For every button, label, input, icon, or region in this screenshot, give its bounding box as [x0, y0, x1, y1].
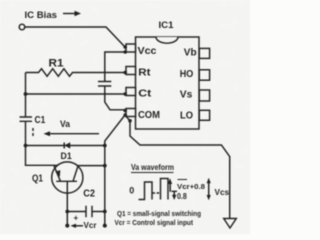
- node discharge junction: [103, 144, 107, 148]
- IC1 label: [159, 20, 174, 30]
- label Vcr plus 0.8: [177, 182, 205, 191]
- note Vcr legend: [115, 218, 194, 227]
- pin HO stub: [199, 70, 209, 80]
- label IC Bias: [25, 10, 58, 20]
- capacitor bypass: [98, 82, 111, 87]
- overbar Vcr: [178, 179, 188, 181]
- wire COM to ground: [125, 115, 230, 218]
- pin Vb stub: [199, 48, 209, 58]
- pin Rt stub: [123, 67, 135, 75]
- pin label LO: [180, 110, 193, 121]
- wire left rail lower: [25, 121, 27, 145]
- arrow Vcr: [71, 224, 84, 228]
- pin LO stub: [199, 110, 209, 120]
- label C1: [35, 115, 46, 126]
- pin Ct stub: [123, 88, 135, 96]
- transistor Q1: [52, 162, 83, 193]
- label Va waveform: [131, 163, 174, 172]
- wire emitter to right rail: [78, 165, 105, 167]
- arrow IC Bias: [63, 11, 81, 16]
- label zero: [129, 186, 134, 196]
- waveform trace: [139, 179, 169, 200]
- pin Vs stub: [199, 90, 209, 101]
- pin label Rt: [138, 68, 151, 79]
- wire collector to left rail: [26, 146, 58, 166]
- pin label Vs: [180, 89, 193, 100]
- label 0.8: [177, 192, 187, 201]
- arrow waveform high: [168, 178, 172, 192]
- wire COM to discharge node: [105, 115, 125, 146]
- arrow Va: [44, 131, 100, 136]
- wire Q1 base down: [66, 181, 68, 225]
- pin Vcc stub: [123, 44, 135, 54]
- pin label Ct: [138, 88, 152, 99]
- node emitter rail junction: [103, 164, 107, 168]
- scan noise overlay: [0, 0, 1, 1]
- label Va: [60, 119, 70, 129]
- node Ct junction: [24, 92, 28, 96]
- terminal rail bottom: [103, 224, 107, 228]
- label R1: [49, 58, 64, 70]
- pin label Vcc: [138, 46, 157, 57]
- arrow waveform low: [172, 191, 178, 200]
- IC IC1 body: [136, 37, 200, 129]
- node ground run junction: [128, 119, 132, 123]
- wire D1 net: [26, 145, 105, 147]
- pin COM stub: [123, 109, 135, 117]
- label Vcs: [215, 188, 230, 197]
- node base C2 junction: [65, 210, 69, 214]
- diode D1: [64, 142, 70, 148]
- pin label COM: [138, 110, 160, 121]
- label D1: [61, 151, 72, 161]
- wire right rail: [104, 146, 106, 226]
- ground: [224, 219, 237, 229]
- pin label Vb: [184, 48, 197, 59]
- arrow Vcs span: [207, 178, 211, 200]
- resistor R1: [26, 69, 126, 77]
- wire Ct: [26, 93, 126, 95]
- node left rail D1 junction: [24, 144, 28, 148]
- node C2 rail junction: [103, 210, 107, 214]
- wire left rail upper: [25, 73, 27, 118]
- wire bias to Vcc: [25, 27, 125, 47]
- label Vcr: [84, 221, 97, 230]
- underline Va waveform: [131, 172, 174, 174]
- label plus: [74, 214, 79, 223]
- note Q1 legend: [117, 209, 201, 218]
- label Q1: [32, 174, 43, 185]
- capacitor C2: [67, 206, 105, 217]
- pin label HO: [180, 69, 194, 80]
- terminal Vcr plus: [65, 224, 69, 228]
- wire Vcc bypass rail: [105, 52, 125, 110]
- terminal IC Bias input: [19, 24, 25, 30]
- tick dashed C1 current: [32, 128, 34, 137]
- capacitor C1: [20, 117, 33, 121]
- label C2: [83, 188, 95, 199]
